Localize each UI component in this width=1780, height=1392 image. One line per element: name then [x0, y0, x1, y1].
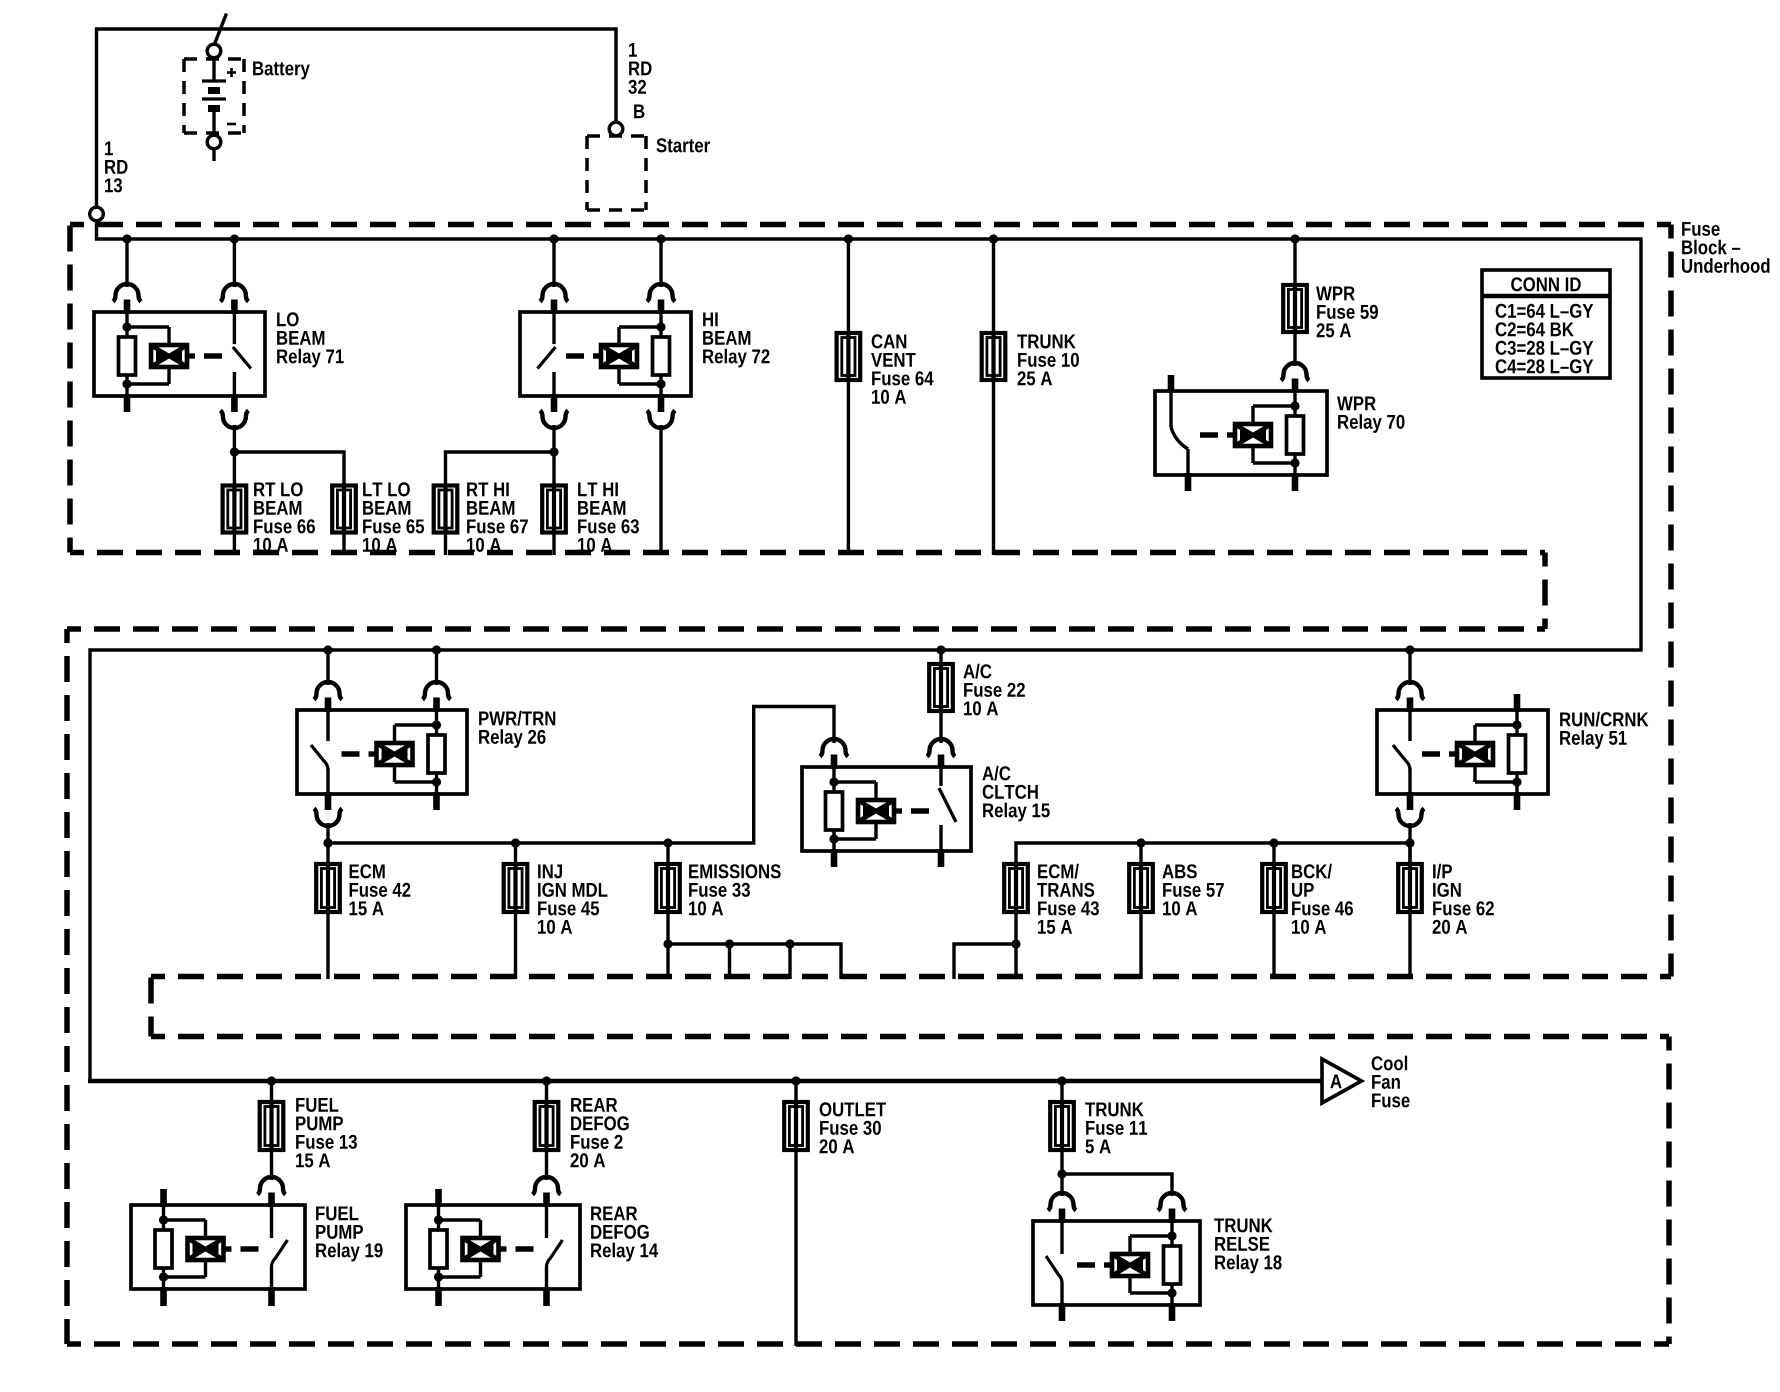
wire can vent feed [847, 239, 850, 333]
node trunk fuse 11 tap [1057, 1076, 1066, 1085]
label HI BEAM Relay 72 [703, 312, 769, 367]
relay LO BEAM Relay 71 [94, 312, 265, 396]
fuse block dashed border H3 [67, 626, 1545, 632]
fuse ECM Fuse 42 [316, 863, 340, 913]
node bus tap can vent [844, 234, 853, 243]
wire emissions drop 1 [728, 944, 731, 979]
wire ecm trans fuse out [1014, 912, 1017, 979]
node emissions splice [663, 939, 672, 948]
wire run crnk output [1408, 823, 1411, 864]
label FUEL PUMP Relay 19 [316, 1206, 382, 1261]
wire battery feed from top bus [97, 29, 617, 207]
connector arc hi beam switch [540, 284, 568, 302]
label FUEL PUMP Fuse 13 15 A [296, 1098, 357, 1167]
wire abs fuse out [1139, 912, 1142, 979]
label BCK UP Fuse 46 10 A [1292, 864, 1353, 934]
fuse block dashed border right V2 [1668, 225, 1674, 977]
wire outlet fuse feed [794, 1081, 797, 1102]
relay HI BEAM Relay 72 [520, 312, 691, 396]
node bus tap pwr trn switch [323, 645, 332, 654]
label ECM TRANS Fuse 43 15 A [1037, 864, 1099, 934]
wire hi beam coil return [659, 425, 662, 555]
pin stubs pwr trn bottom [328, 792, 437, 810]
label REAR DEFOG Relay 14 [591, 1206, 658, 1261]
wire pwr trn coil feed [435, 650, 438, 685]
wire bck up fuse feed [1272, 843, 1275, 864]
label TRUNK Fuse 11 5 A [1085, 1102, 1147, 1153]
wire hi beam coil feed [659, 239, 662, 287]
wire emissions drop 2 [788, 944, 791, 979]
fuse block dashed border notch V3 [1542, 553, 1548, 630]
label EMISSIONS Fuse 33 10 A [689, 864, 781, 915]
label WPR Fuse 59 25 A [1316, 286, 1378, 337]
cool fan fuse off-page arrow [1322, 1059, 1362, 1103]
fuse OUTLET Fuse 30 [784, 1101, 808, 1151]
connector arc hi beam coil [647, 284, 675, 302]
wire outlet fuse out [794, 1150, 797, 1346]
fuse block dashed border right V6 [1666, 1037, 1672, 1345]
battery dashed box [184, 59, 244, 133]
node a/c fuse 22 bus tap [936, 645, 945, 654]
label Battery [253, 61, 310, 79]
node ecm fuse tap [323, 838, 332, 847]
wire lo beam output [233, 425, 236, 486]
label starter terminal B [634, 104, 644, 118]
connector arc trunk relse coil [1158, 1193, 1186, 1211]
node trunk relse splice [1057, 1169, 1066, 1178]
pin stubs trunk relse bottom [1062, 1303, 1172, 1321]
wire run crnk switch feed [1408, 650, 1411, 685]
connector arc hi beam switch out [540, 411, 568, 429]
label Cool Fan Fuse [1372, 1056, 1410, 1108]
label A/C CLTCH Relay 15 [982, 766, 1049, 822]
battery cell symbol [202, 58, 236, 136]
pin stubs rear defog top [439, 1189, 547, 1207]
pin stubs fuel pump top [164, 1189, 272, 1207]
fuse WPR Fuse 59 [1283, 284, 1307, 333]
wire ac fuse feed [939, 650, 942, 664]
node rear defog fuse tap [542, 1076, 551, 1085]
label LO BEAM Relay 71 [277, 312, 344, 367]
wire ecm trans branch [954, 944, 1016, 979]
connector arc wpr coil [1281, 363, 1309, 380]
fuse LT HI BEAM Fuse 63 [542, 485, 566, 534]
fuse ECM/TRANS Fuse 43 [1004, 863, 1028, 913]
label Starter [656, 138, 709, 152]
relay A/C CLTCH Relay 15 [802, 767, 971, 851]
connector arc fuel pump switch [258, 1177, 286, 1194]
node bus tap lo beam switch [230, 234, 239, 243]
node bus tap run crnk switch [1405, 645, 1414, 654]
node bus tap hi beam switch [549, 234, 558, 243]
fuse block dashed border H2 [70, 550, 1545, 556]
fuse block underhood dashed border top H1 [70, 222, 1671, 228]
wire ignition feed rail left [328, 707, 834, 844]
fuse REAR DEFOG Fuse 2 [535, 1101, 559, 1151]
label OUTLET Fuse 30 20 A [820, 1102, 886, 1153]
conn id table [1482, 270, 1610, 378]
wire bottom feed bus [88, 1079, 1323, 1084]
label RT LO BEAM Fuse 66 10 A [254, 482, 315, 552]
fuse BCK/UP Fuse 46 [1262, 863, 1286, 913]
label wire 1 RD 13 [105, 141, 128, 192]
fuse I/P IGN Fuse 62 [1398, 863, 1422, 913]
label RT HI BEAM Fuse 67 10 A [467, 482, 528, 551]
relay PWR/TRN Relay 26 [297, 710, 467, 794]
pin stubs trunk relse top [1062, 1209, 1172, 1224]
node hi beam output junction [549, 447, 558, 456]
pin stubs lo beam top [127, 300, 234, 315]
label IP IGN Fuse 62 20 A [1433, 864, 1494, 934]
node emissions rail tap 1 [725, 939, 734, 948]
fuse block dashed border bottom H6 [67, 1341, 1669, 1347]
label REAR DEFOG Fuse 2 20 A [571, 1098, 629, 1167]
wire main battery bus [90, 221, 1641, 1081]
label Fuse Block - Underhood [1682, 222, 1769, 273]
node bus tap pwr trn coil [432, 645, 441, 654]
wire pwr trn output [326, 823, 329, 864]
node splice to fuse block [90, 207, 104, 221]
fuse block dashed border H4 [151, 974, 1671, 980]
label INJ IGN MDL Fuse 45 10 A [538, 864, 607, 933]
battery B+ [0, 0, 1, 1]
node fuel pump fuse tap [267, 1076, 276, 1085]
node starter B terminal [609, 122, 623, 136]
wire emissions fuse feed [666, 843, 669, 864]
node run crnk rail junction [1405, 838, 1414, 847]
label A/C Fuse 22 10 A [963, 664, 1024, 716]
label CAN VENT Fuse 64 10 A [871, 334, 933, 404]
wire wpr fuse feed [1293, 239, 1296, 285]
wire to lt lo beam fuse [234, 452, 344, 486]
fuse LT LO BEAM Fuse 65 [332, 485, 356, 534]
wire trunk fuse 10 feed [992, 239, 995, 333]
pin stubs run crnk bottom [1410, 792, 1517, 810]
fuse RT LO BEAM Fuse 66 [223, 485, 247, 534]
wire lt lo fuse out [342, 533, 345, 556]
wire run crnk output rail [1016, 843, 1410, 864]
relay TRUNK RELSE Relay 18 [1033, 1221, 1200, 1305]
wire ip ign fuse out [1408, 912, 1411, 979]
wire inj fuse feed [514, 843, 517, 864]
label LT HI BEAM Fuse 63 10 A [578, 482, 639, 551]
battery negative terminal [207, 135, 221, 149]
fuse INJ IGN MDL Fuse 45 [504, 863, 528, 913]
pin stubs rear defog bottom [439, 1287, 547, 1306]
connector arc run crnk switch out [1396, 809, 1424, 827]
label TRUNK Fuse 10 25 A [1017, 334, 1079, 385]
relay RUN/CRNK Relay 51 [1377, 710, 1548, 794]
wire trunk fuse 10 out [992, 380, 995, 555]
wire emissions fuse out [666, 912, 669, 979]
node bus tap trunk fuse 10 [989, 234, 998, 243]
wire lt hi fuse out [552, 533, 555, 556]
node bck up fuse tap [1269, 838, 1278, 847]
pin stubs hi beam top [554, 300, 661, 315]
pin stubs lo beam bottom [127, 394, 234, 412]
battery positive lead tick [215, 14, 227, 45]
wire bck up fuse out [1272, 912, 1275, 979]
wire rear defog fuse out [545, 1150, 548, 1180]
node pwr trn output junction [323, 838, 332, 847]
wire trunk fuse 11 out [1060, 1150, 1063, 1196]
connector arc lo beam switch [220, 284, 248, 302]
wire inj fuse out [514, 912, 517, 979]
pin stubs hi beam bottom [554, 394, 661, 412]
node abs fuse tap [1136, 838, 1145, 847]
label WPR Relay 70 [1337, 396, 1404, 432]
wire hi beam output [552, 425, 555, 486]
connector arc ac cltch coil [820, 739, 848, 757]
fuse TRUNK Fuse 10 [982, 332, 1006, 381]
fuse A/C Fuse 22 [929, 663, 953, 712]
wire wpr fuse out [1293, 332, 1296, 366]
label TRUNK RELSE Relay 18 [1214, 1218, 1281, 1273]
pin stubs ac cltch bottom [834, 849, 941, 867]
fuse block dashed border left V1 [67, 225, 73, 553]
wire ip ign fuse feed [1408, 843, 1411, 864]
pin stubs wpr bottom [1188, 473, 1295, 491]
fuse block dashed border notch V5 [148, 977, 154, 1037]
wire lo beam switch feed [233, 239, 236, 287]
label wire 1 RD 32 [628, 43, 651, 94]
wire hi beam switch feed [552, 239, 555, 287]
wire ac fuse out [939, 711, 942, 743]
wire emissions output rail [668, 944, 841, 979]
wire abs fuse feed [1139, 843, 1142, 864]
connector arc hi beam coil out [647, 411, 675, 429]
node lo beam output junction [230, 447, 239, 456]
fuse EMISSIONS Fuse 33 [656, 863, 680, 913]
label LT LO BEAM Fuse 65 10 A [363, 482, 424, 552]
fuse block dashed border H5 [151, 1034, 1669, 1040]
node emissions rail tap 2 [785, 939, 794, 948]
label ABS Fuse 57 10 A [1162, 864, 1223, 915]
wire rt lo fuse out [233, 533, 236, 556]
node inj fuse tap [511, 838, 520, 847]
connector arc ac cltch switch [927, 739, 955, 757]
node bus tap hi beam coil [656, 234, 665, 243]
relay REAR DEFOG Relay 14 [406, 1205, 580, 1289]
wire pwr trn switch feed [326, 650, 329, 685]
relay WPR Relay 70 [1155, 391, 1327, 475]
wire battery negative tail [212, 149, 215, 161]
connector arc pwr trn switch out [314, 809, 342, 827]
connector arc rear defog switch [533, 1177, 561, 1194]
connector arc pwr trn coil [423, 682, 451, 700]
connector arc lo beam switch out [220, 411, 248, 429]
wire fuel pump fuse feed [270, 1081, 273, 1102]
wire can vent out [847, 380, 850, 555]
wire rear defog fuse feed [545, 1081, 548, 1102]
label PWR/TRN Relay 26 [479, 711, 555, 748]
node outlet fuse tap [791, 1076, 800, 1085]
wire ecm fuse out [326, 912, 329, 979]
pin stubs pwr trn top [328, 698, 437, 713]
wire trunk fuse 11 feed [1060, 1081, 1063, 1102]
node battery positive terminal [207, 44, 221, 58]
relay FUEL PUMP Relay 19 [131, 1205, 305, 1289]
node bus tap wpr fuse [1290, 234, 1299, 243]
node emissions fuse tap [663, 838, 672, 847]
wire trunk relse coil feed [1062, 1174, 1172, 1196]
node ecm trans splice [1011, 939, 1020, 948]
label RUN/CRNK Relay 51 [1560, 712, 1648, 749]
wire to rt hi beam fuse [446, 452, 555, 486]
wire fuel pump fuse out [270, 1150, 273, 1180]
node bus tap lo beam coil [122, 234, 131, 243]
starter dashed box [587, 136, 646, 210]
wire rt hi fuse out [444, 533, 447, 556]
pin stubs run crnk top [1410, 694, 1517, 712]
pin stubs ac cltch top [834, 755, 941, 770]
fuse block dashed border left V4 [64, 629, 70, 1344]
pin stubs wpr top [1171, 375, 1295, 393]
label ECM Fuse 42 15 A [350, 864, 411, 915]
fuse CAN VENT Fuse 64 [837, 332, 861, 381]
connector arc trunk relse switch [1048, 1193, 1076, 1211]
fuse FUEL PUMP Fuse 13 [260, 1101, 284, 1151]
pin stubs fuel pump bottom [164, 1287, 272, 1306]
connector arc run crnk switch [1396, 682, 1424, 700]
fuse RT HI BEAM Fuse 67 [434, 485, 458, 534]
connector arc lo beam coil [113, 284, 141, 302]
fuse TRUNK Fuse 11 [1050, 1101, 1074, 1151]
wire lo beam coil feed [125, 239, 128, 287]
fuse ABS Fuse 57 [1129, 863, 1153, 913]
connector arc pwr trn switch [314, 682, 342, 700]
